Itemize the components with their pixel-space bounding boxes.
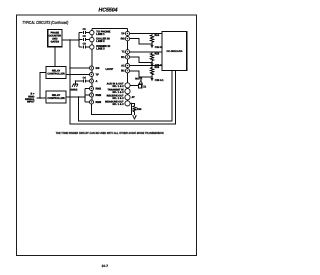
- svg-text:C1: C1: [83, 28, 87, 31]
- ground arrow AG1: [150, 45, 153, 48]
- terminal A: [90, 79, 94, 83]
- terminal pair TP: [125, 31, 129, 35]
- terminal AUX: [125, 83, 130, 88]
- svg-text:RM3: RM3: [96, 101, 102, 104]
- svg-text:NO. 1 & 2: NO. 1 & 2: [112, 97, 124, 100]
- node junction bracket: [84, 96, 86, 98]
- svg-text:T1: T1: [121, 51, 125, 54]
- svg-text:A1: A1: [121, 64, 125, 67]
- wire: center column vertical bus: [127, 28, 129, 103]
- terminal TIP line 1: [90, 30, 94, 34]
- svg-text:INPUT: INPUT: [27, 101, 35, 104]
- box K2 relay controller: [46, 91, 66, 103]
- terminal MEASURE: [125, 101, 130, 106]
- wire: signal input to K2: [37, 97, 47, 99]
- svg-text:NOTE: NOTE: [135, 77, 142, 80]
- svg-text:RM1: RM1: [96, 87, 102, 90]
- svg-text:AT: AT: [132, 96, 136, 99]
- svg-text:R1: R1: [121, 56, 125, 59]
- note marker delta: [139, 80, 142, 83]
- svg-text:LINE 1: LINE 1: [96, 33, 105, 36]
- svg-text:TYPICAL CIRCUITS (Continued): TYPICAL CIRCUITS (Continued): [22, 20, 68, 25]
- svg-text:GND2: GND2: [71, 89, 79, 92]
- svg-text:TP: TP: [121, 32, 125, 35]
- terminal GS: [90, 66, 94, 70]
- wire: pair1 upper to IC: [130, 33, 162, 35]
- component Z1: [139, 84, 142, 88]
- wire: capacitor feed bus: [79, 33, 82, 47]
- svg-text:R24: R24: [155, 34, 160, 37]
- wire: pair1 lower to R4 node: [130, 39, 152, 44]
- terminal pair B1: [125, 69, 129, 73]
- wire: long left vertical to bottom rail to IC pin: [70, 40, 176, 124]
- svg-text:C2: C2: [83, 35, 87, 38]
- svg-text:A: A: [96, 80, 98, 83]
- svg-text:RG: RG: [121, 38, 125, 41]
- IC U2: [162, 32, 187, 71]
- svg-text:THE TONE RINGER CIRCUIT CAN BE: THE TONE RINGER CIRCUIT CAN BE USED WITH…: [56, 131, 164, 135]
- node: [151, 62, 153, 64]
- wire: U loop return: [92, 103, 132, 114]
- svg-text:NO. 1 & 2: NO. 1 & 2: [112, 91, 124, 94]
- wire: U1 to relay controller K1: [54, 47, 56, 67]
- wire: bracket to relay terminals: [85, 89, 90, 103]
- box U1 phase counter and gates: [48, 30, 62, 47]
- resistor R5: [150, 52, 153, 63]
- terminal RM3: [90, 100, 94, 104]
- node junction C4: [75, 80, 77, 82]
- terminal pair A1: [125, 64, 129, 68]
- svg-text:GATES: GATES: [51, 41, 60, 44]
- wire: K1 output to terminal TF: [66, 74, 90, 76]
- svg-text:R30: R30: [137, 108, 142, 111]
- svg-text:C3: C3: [83, 43, 87, 46]
- resistor R30: [133, 106, 136, 115]
- svg-text:TF: TF: [96, 73, 100, 76]
- wire: pair3 lower to R6 node: [130, 71, 152, 77]
- terminal pair RG: [125, 37, 129, 41]
- resistor R6: [150, 66, 153, 77]
- wire: inner bottom rail to IC pin: [79, 71, 173, 121]
- capacitor C1: [83, 31, 89, 34]
- wire: top rail node A: [92, 27, 128, 29]
- node: [151, 76, 153, 78]
- wire: U1 output to capacitor bus: [62, 39, 79, 41]
- svg-text:RM2: RM2: [96, 94, 102, 97]
- terminal line 2: [90, 37, 94, 41]
- svg-text:LINE 3: LINE 3: [96, 47, 105, 50]
- svg-text:B1: B1: [121, 70, 125, 73]
- wire: aux terminal to Z1: [130, 84, 139, 86]
- svg-text:LINE 2: LINE 2: [96, 40, 105, 43]
- capacitor C4 to ground: [76, 79, 90, 84]
- svg-text:Z1: Z1: [143, 86, 147, 89]
- terminal RM1: [90, 87, 94, 91]
- node junction at long vertical: [69, 39, 71, 41]
- svg-text:NO. 1 & 2: NO. 1 & 2: [112, 103, 124, 106]
- svg-text:HC-5502A/04: HC-5502A/04: [166, 50, 182, 53]
- wire: feed to terminal GS: [70, 67, 90, 69]
- terminal RM2: [90, 93, 94, 97]
- node junction: [78, 96, 80, 98]
- svg-text:C26 0.1: C26 0.1: [155, 79, 164, 82]
- node junction input: [39, 97, 41, 99]
- terminal pair T1: [125, 50, 129, 54]
- box K1 relay controller: [46, 67, 66, 79]
- node: [151, 43, 153, 45]
- ground arrow AG3: [150, 78, 153, 81]
- wire: pair3 upper to IC: [130, 65, 162, 67]
- wire: K1 left branch down to input wire: [40, 73, 46, 99]
- svg-text:HC5504: HC5504: [99, 8, 118, 14]
- wire: pair2 lower to R5 node: [130, 57, 152, 62]
- ground GND1: [72, 84, 78, 87]
- page border frame: [17, 15, 197, 256]
- svg-text:R26: R26: [155, 66, 160, 69]
- node junction bus: [78, 39, 80, 41]
- terminal TRANSMIT: [125, 89, 130, 94]
- svg-text:R25: R25: [155, 52, 160, 55]
- svg-text:C4: C4: [83, 77, 87, 80]
- terminal RECEIVE: [125, 95, 130, 100]
- resistor R4: [150, 34, 153, 45]
- terminal line 3: [90, 45, 94, 49]
- svg-text:10-7: 10-7: [101, 264, 108, 268]
- node: [131, 103, 133, 105]
- terminal TF: [90, 73, 94, 77]
- wire: K2 output to bracket: [66, 96, 85, 98]
- svg-text:CONTROLLER: CONTROLLER: [47, 73, 65, 76]
- svg-text:LOOP: LOOP: [106, 68, 114, 71]
- capacitor C2: [83, 38, 89, 41]
- node junction: [69, 67, 71, 69]
- capacitor C3: [83, 45, 89, 48]
- ground arrow AG4: [133, 115, 137, 119]
- svg-text:CONTROLLER: CONTROLLER: [47, 97, 65, 100]
- wire: pair2 upper to IC: [130, 51, 162, 53]
- wire: measure to R30: [130, 103, 135, 106]
- node junction: [69, 96, 71, 98]
- ground arrow AG2: [150, 63, 153, 66]
- wire: left column vertical bus: [91, 28, 93, 102]
- node junction: [69, 74, 71, 76]
- svg-text:GS: GS: [96, 67, 100, 70]
- terminal pair R1: [125, 55, 129, 59]
